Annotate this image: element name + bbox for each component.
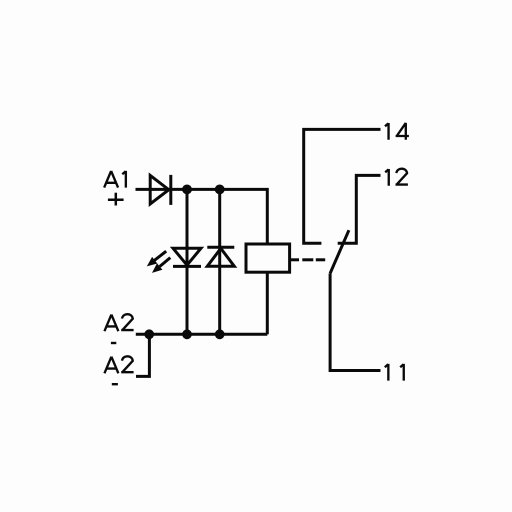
terminal label 11 <box>385 364 404 381</box>
relay coil K1 <box>246 244 290 272</box>
node junction bottom-mid <box>182 329 192 339</box>
wire contact 12 with stationary contact foot <box>338 175 381 243</box>
wire coil bottom vertical <box>266 272 269 334</box>
diode D2 freewheel (cathode up) <box>207 247 234 266</box>
terminal label 12 <box>385 169 408 186</box>
terminal label A2 (first) <box>104 314 133 331</box>
wire A2 bottom horizontal <box>136 333 267 336</box>
wire A1 horizontal to coil top <box>136 189 268 244</box>
LED V1 (cathode down) <box>147 248 201 273</box>
node junction top-left <box>182 185 192 195</box>
wire freewheel-diode branch vertical <box>218 189 221 334</box>
wire contact 14 with stationary contact foot <box>304 129 381 243</box>
polarity mark - (first) <box>111 342 116 344</box>
node junction bottom-right <box>215 329 225 339</box>
contact blade (movable) <box>330 230 349 273</box>
wire LED branch vertical <box>186 189 189 334</box>
node junction top-right <box>215 185 225 195</box>
polarity mark - (second) <box>112 383 118 385</box>
node junction bottom-left <box>144 329 154 339</box>
diode D1 (series, anode left) <box>150 175 171 205</box>
terminal label 14 <box>385 123 409 140</box>
terminal label A2 (second) <box>104 356 133 373</box>
terminal label A1 <box>104 171 126 188</box>
polarity mark + <box>108 193 124 206</box>
wire A2 second terminal stub <box>136 336 149 376</box>
wire contact 11 common <box>330 273 380 370</box>
dashed actuation link coil to contact <box>291 258 325 261</box>
